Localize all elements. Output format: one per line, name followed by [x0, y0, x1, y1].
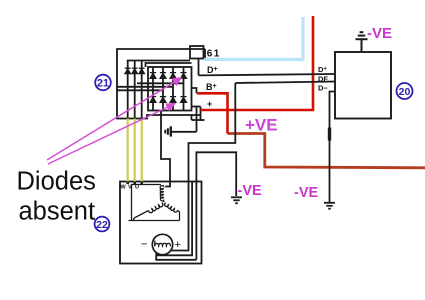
- svg-text:U: U: [135, 185, 139, 191]
- main diode row2 col1: [150, 97, 156, 103]
- field diode 3: [139, 68, 145, 73]
- wire brush to earth: [196, 152, 236, 259]
- wire +VE feed (rust red): [228, 134, 425, 168]
- svg-text:-VE: -VE: [238, 183, 263, 199]
- svg-text:-VE: -VE: [367, 25, 392, 42]
- stator lead U (yellow): [141, 119, 143, 182]
- circled 20: [397, 83, 413, 99]
- svg-text:DF: DF: [318, 75, 328, 84]
- svg-text:-VE: -VE: [294, 185, 319, 201]
- B+ stub: [192, 88, 197, 93]
- regulator 20 box: [335, 52, 391, 119]
- wire D- to ground: [330, 92, 336, 203]
- field diode bus (61 bus): [127, 60, 190, 62]
- terminal V: [133, 182, 136, 185]
- wire + terminal to brush: [172, 131, 197, 133]
- svg-text:D−: D−: [318, 84, 328, 93]
- wire 61-box to D+ line: [198, 59, 200, 76]
- connector on D- wire: [328, 128, 331, 141]
- svg-text:+: +: [175, 239, 181, 251]
- wire DF to regulator: [235, 82, 335, 84]
- terminal 61 box: [190, 46, 204, 59]
- circled 22: [95, 217, 110, 232]
- wire B+ (red): [197, 93, 228, 133]
- main diode column 1: [152, 67, 154, 111]
- main diode row1 col1: [150, 73, 156, 79]
- svg-text:1: 1: [214, 49, 220, 60]
- stator winding frame bottom: [129, 220, 180, 222]
- stator coil 2 tail: [134, 211, 149, 221]
- phase column U: [141, 61, 143, 119]
- main diode row1 col4: [180, 73, 186, 79]
- + terminal shelf: [192, 106, 201, 108]
- wire D+ to regulator: [199, 74, 336, 75]
- svg-text:22: 22: [96, 219, 108, 231]
- stator coil 1 (vertical): [160, 185, 164, 202]
- wire DF drop to brush: [171, 83, 235, 251]
- wire rectifier to stator star point: [161, 111, 170, 187]
- rectifier 21 outer box: [117, 49, 205, 119]
- svg-text:+: +: [207, 99, 212, 109]
- terminal W: [126, 182, 129, 185]
- phase bus 3: [117, 89, 163, 91]
- wire stator tail to rotor brush: [156, 182, 192, 256]
- annotation arrow 2: [48, 103, 176, 164]
- rotor brush stub: [154, 241, 156, 247]
- wire rotor minus loop: [156, 252, 196, 260]
- rotor slip-ring circle: [152, 234, 172, 254]
- phase column W: [127, 61, 129, 119]
- ground G2: [324, 203, 335, 209]
- svg-text:W: W: [121, 185, 127, 191]
- stator coil 2 (lower-left): [149, 203, 163, 213]
- svg-text:absent: absent: [19, 198, 96, 226]
- main diode row2 col4: [180, 97, 186, 103]
- stator coil 3 (lower-right): [165, 203, 178, 212]
- main diode column 2: [162, 67, 164, 111]
- rotor field coil: [155, 243, 171, 246]
- svg-text:21: 21: [97, 78, 109, 90]
- alternator 22 box: [120, 182, 202, 264]
- terminal U: [140, 182, 143, 185]
- wire 61 warning-lamp (cyan): [204, 17, 303, 60]
- vertical to brush line: [196, 107, 198, 132]
- main diode row1 col2: [160, 73, 166, 79]
- phase bus 2: [117, 86, 173, 88]
- svg-text:+VE: +VE: [245, 116, 278, 135]
- phase bus 1: [137, 82, 184, 84]
- main diode row2 col2: [160, 97, 166, 103]
- stator winding frame top: [132, 185, 162, 221]
- vertical to box bottom: [200, 107, 202, 121]
- field diode 2: [132, 68, 138, 73]
- wire + main battery feed (red): [201, 16, 314, 110]
- stator lead V (yellow): [134, 119, 136, 182]
- main diode column 3: [172, 67, 174, 111]
- annotation arrow 1: [47, 77, 183, 160]
- stator lead W (yellow): [127, 119, 129, 182]
- svg-text:6: 6: [207, 49, 213, 60]
- main diode column 4: [183, 67, 185, 111]
- brush symbol (sideways bars): [165, 126, 171, 136]
- phase column V: [134, 61, 136, 119]
- circled 21: [95, 75, 111, 91]
- svg-text:20: 20: [399, 86, 411, 98]
- svg-text:−: −: [141, 239, 147, 251]
- field diode 1: [125, 68, 131, 73]
- main diode row1 col3: [170, 73, 176, 79]
- rectifier inner box: [148, 67, 192, 111]
- stator coil 3 tail: [178, 210, 180, 220]
- ground G3 above regulator: [356, 32, 368, 52]
- main diode row2 col3: [170, 97, 176, 103]
- rectifier middle box: [146, 63, 192, 67]
- ground G1: [231, 197, 242, 203]
- svg-text:Diodes: Diodes: [17, 168, 96, 196]
